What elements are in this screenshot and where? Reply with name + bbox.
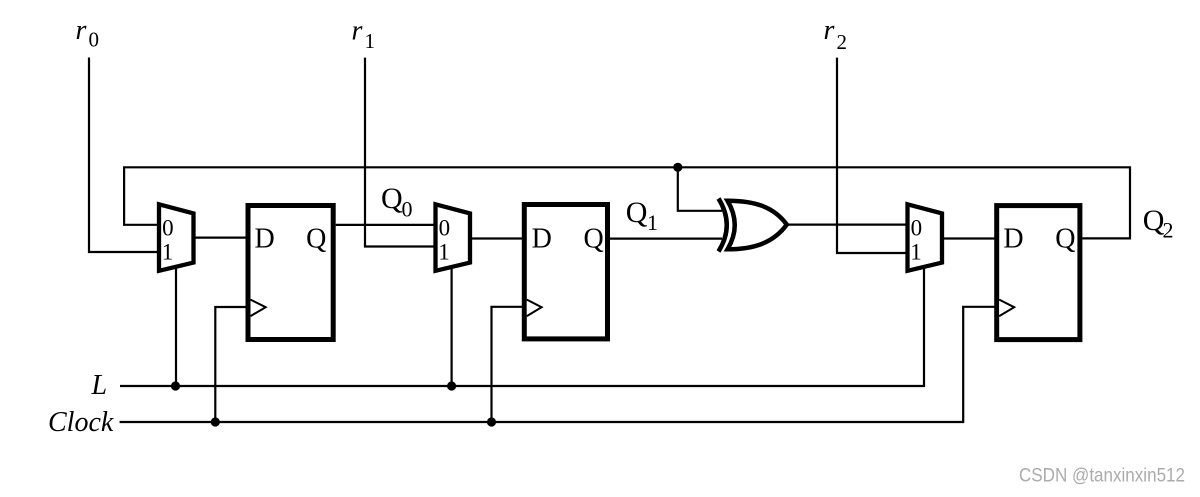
svg-text:1: 1: [365, 29, 376, 53]
mux U3 2-to-1 multiplexer: [908, 204, 943, 270]
junction L and mux2 select: [447, 381, 456, 390]
svg-text:1: 1: [647, 210, 658, 235]
svg-text:Clock: Clock: [48, 407, 114, 438]
XOR gate G1 body: [728, 201, 787, 250]
svg-text:D: D: [532, 224, 552, 255]
flip-flop FF2 clock triangle: [527, 300, 542, 317]
wire feedback Q2 to mux1: [124, 167, 1130, 238]
svg-text:Q: Q: [381, 182, 403, 215]
svg-text:0: 0: [911, 216, 923, 241]
wire r1 input: [365, 58, 436, 247]
svg-text:L: L: [91, 370, 108, 401]
junction L and mux1 select: [171, 381, 180, 390]
wire mux1 select: [175, 266, 177, 386]
flip-flop FF1: [248, 206, 333, 340]
wire feedback tap to XOR top input: [678, 167, 722, 211]
svg-text:0: 0: [89, 28, 100, 52]
svg-text:r: r: [824, 15, 835, 46]
flip-flop FF3 clock triangle: [999, 300, 1014, 317]
svg-text:1: 1: [162, 239, 174, 264]
junction Clock and FF1 riser: [211, 417, 220, 426]
wire r2 input: [837, 58, 908, 253]
svg-text:CSDN @tanxinxin512: CSDN @tanxinxin512: [1019, 465, 1185, 487]
wire clock riser FF2: [492, 307, 526, 422]
wire r0 input: [89, 58, 160, 253]
mux U1 2-to-1 multiplexer: [159, 204, 194, 270]
flip-flop FF1 clock triangle: [251, 300, 266, 317]
svg-text:Q: Q: [306, 224, 326, 255]
wire Q0 FF1 to mux2: [336, 224, 436, 226]
svg-text:D: D: [255, 224, 275, 255]
flip-flop FF3: [997, 206, 1080, 340]
svg-text:2: 2: [1163, 217, 1174, 242]
svg-text:D: D: [1003, 224, 1023, 255]
XOR gate G1 extra input arc: [719, 199, 727, 252]
wire Q1 FF2 to XOR bottom input: [610, 238, 722, 240]
wire L select line: [120, 266, 924, 386]
junction Clock and FF2 riser: [487, 417, 496, 426]
junction on feedback wire: [673, 163, 682, 172]
wire mux1 output to FF1 D: [194, 237, 250, 239]
flip-flop FF2: [524, 205, 607, 339]
svg-text:0: 0: [402, 197, 413, 222]
svg-text:2: 2: [837, 30, 848, 54]
wire Clock line: [120, 307, 997, 422]
svg-text:0: 0: [439, 216, 451, 241]
svg-text:Q: Q: [626, 196, 648, 229]
mux U2 2-to-1 multiplexer: [436, 204, 471, 270]
svg-text:0: 0: [162, 216, 174, 241]
svg-text:1: 1: [438, 239, 450, 264]
wire clock riser FF1: [215, 307, 249, 422]
svg-text:Q: Q: [1143, 204, 1165, 237]
wire mux2 select: [451, 266, 453, 386]
wire mux2 output to FF2 D: [470, 237, 525, 239]
wire mux3 output to FF3 D: [942, 237, 997, 239]
svg-text:Q: Q: [1055, 224, 1075, 255]
svg-text:r: r: [352, 15, 363, 46]
svg-text:Q: Q: [584, 224, 604, 255]
svg-text:r: r: [76, 15, 87, 46]
svg-text:1: 1: [910, 239, 922, 264]
wire XOR output to mux3: [787, 224, 909, 226]
